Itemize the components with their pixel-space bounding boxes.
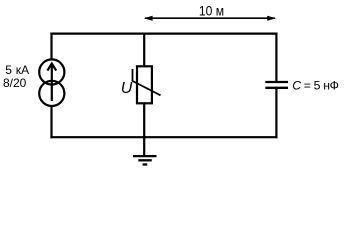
wire: right branch below capacitor: [275, 89, 277, 139]
wire: bottom bus: [50, 136, 277, 138]
current source G1 (impulse 8/20): [39, 59, 64, 106]
ground: [133, 156, 157, 164]
wire: right branch above capacitor: [275, 33, 277, 82]
svg-text:10 м: 10 м: [199, 3, 224, 19]
wire: left branch below source: [50, 106, 52, 139]
wire: middle branch above varistor: [143, 33, 145, 67]
varistor U (SPD): [133, 66, 161, 103]
dimension arrow (10 m span): [144, 16, 277, 21]
capacitor C: [265, 82, 288, 88]
svg-text:U: U: [121, 80, 133, 97]
wire: ground stem: [143, 137, 145, 156]
svg-text:8/20: 8/20: [3, 76, 27, 90]
wire: middle branch below varistor: [143, 103, 145, 138]
svg-text:C = 5 нФ: C = 5 нФ: [292, 79, 339, 93]
wire: left branch above source: [50, 33, 52, 60]
wire: top bus: [50, 32, 277, 34]
